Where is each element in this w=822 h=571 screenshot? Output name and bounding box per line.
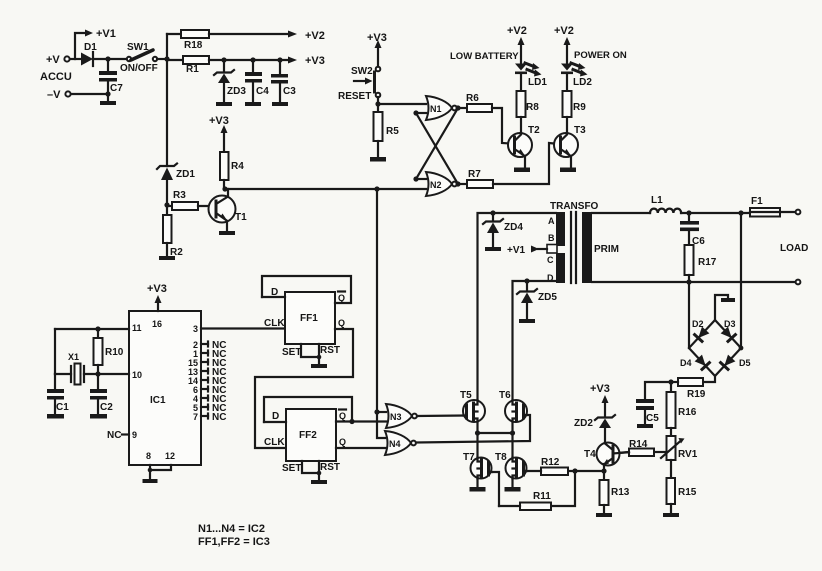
supply +V1 into tap bbox=[507, 245, 547, 256]
ground under R13 bbox=[596, 513, 612, 517]
svg-text:F1: F1 bbox=[751, 196, 763, 207]
transformer tap notch B/C bbox=[547, 245, 557, 254]
ground under T3 bbox=[560, 168, 576, 173]
ground under T1 bbox=[219, 231, 235, 235]
svg-text:Q: Q bbox=[338, 293, 345, 303]
resistor R17 bbox=[685, 245, 717, 282]
ground under T7 bbox=[470, 487, 486, 492]
transistor T2 bbox=[508, 125, 540, 167]
svg-text:N4: N4 bbox=[389, 439, 401, 449]
capacitor C5 bbox=[636, 382, 671, 424]
resistor R14 bbox=[620, 439, 667, 456]
wire pin11 branch down bbox=[54, 329, 56, 374]
svg-text:9: 9 bbox=[132, 430, 137, 440]
svg-text:T3: T3 bbox=[574, 125, 586, 136]
switch SW2 RESET bbox=[338, 66, 380, 102]
svg-text:+V3: +V3 bbox=[147, 283, 167, 295]
node ZD4 bbox=[490, 210, 495, 215]
resistor R18 bbox=[167, 30, 209, 51]
svg-text:T7: T7 bbox=[463, 452, 475, 463]
ground under C7 bbox=[100, 94, 116, 105]
terminal load top bbox=[796, 210, 801, 215]
node R5 / N1 input bbox=[375, 101, 380, 106]
MOSFET T8 bbox=[495, 452, 527, 479]
fuse F1 bbox=[750, 196, 780, 217]
wire rail to T7 drain bbox=[476, 433, 478, 457]
supply +V3 above ZD2 bbox=[590, 383, 610, 417]
svg-text:R15: R15 bbox=[678, 487, 697, 498]
wire primary top rail bbox=[592, 212, 650, 214]
wire mid rail bbox=[478, 432, 513, 434]
svg-text:R1: R1 bbox=[186, 64, 199, 75]
MOSFET T6 bbox=[499, 390, 527, 422]
svg-text:SW1: SW1 bbox=[127, 42, 149, 53]
resistor R12 bbox=[526, 457, 568, 475]
pin 11 wire bbox=[55, 328, 129, 330]
node N1 output bbox=[455, 105, 460, 110]
svg-text:R3: R3 bbox=[173, 190, 186, 201]
node FF2 Qbar loop bbox=[349, 419, 354, 424]
svg-text:10: 10 bbox=[132, 370, 142, 380]
wire vertical to N3/N4 bbox=[376, 189, 378, 412]
FF1 Qbar feedback loop bbox=[262, 276, 351, 303]
svg-text:+V2: +V2 bbox=[554, 25, 574, 37]
node R10 top bbox=[95, 326, 100, 331]
capacitor C1 bbox=[47, 374, 69, 414]
svg-text:LOAD: LOAD bbox=[780, 243, 808, 254]
diode D5 bbox=[721, 355, 751, 370]
svg-text:D5: D5 bbox=[739, 358, 751, 368]
LED LD2 bbox=[561, 63, 592, 91]
resistor R10 bbox=[94, 329, 124, 374]
svg-text:N2: N2 bbox=[430, 180, 442, 190]
ground under FF1 bbox=[311, 364, 327, 368]
svg-text:SET: SET bbox=[282, 347, 301, 358]
resistor R15 bbox=[667, 478, 697, 513]
wire T8 source to ground bbox=[511, 479, 513, 487]
pin 3 clock wire to FF1 bbox=[201, 327, 285, 329]
node rail left bbox=[475, 430, 480, 435]
ground under R5 bbox=[370, 157, 386, 162]
svg-text:+V2: +V2 bbox=[507, 25, 527, 37]
svg-text:R18: R18 bbox=[184, 40, 203, 51]
zener ZD4 bbox=[483, 213, 523, 247]
svg-text:R14: R14 bbox=[629, 439, 648, 450]
svg-text:–V: –V bbox=[47, 89, 61, 101]
transformer primary winding bbox=[582, 212, 592, 283]
svg-text:T1: T1 bbox=[235, 212, 247, 223]
flip-flop FF1 box bbox=[285, 292, 335, 344]
rectifier bridge arms bbox=[689, 320, 741, 376]
zener ZD2 bbox=[574, 415, 615, 443]
svg-text:+V3: +V3 bbox=[367, 32, 387, 44]
node C7 junction bbox=[105, 56, 110, 61]
svg-text:R7: R7 bbox=[468, 169, 481, 180]
svg-text:7: 7 bbox=[193, 412, 198, 422]
node R3/R2 bbox=[164, 202, 169, 207]
transistor T3 bbox=[554, 125, 586, 167]
node R17 bottom / bridge left bbox=[686, 279, 691, 284]
ground under C5 bbox=[637, 424, 653, 428]
capacitor C7 bbox=[99, 59, 123, 94]
pin 5 NC bbox=[193, 403, 226, 414]
node R4 / T1 collector bbox=[222, 186, 227, 191]
svg-text:LD2: LD2 bbox=[573, 77, 592, 88]
transformer core bbox=[571, 212, 576, 283]
wire bridge right feed bbox=[740, 213, 742, 348]
MOSFET T5 bbox=[460, 390, 485, 422]
svg-text:R8: R8 bbox=[526, 102, 539, 113]
pin 15 NC bbox=[188, 358, 226, 369]
svg-text:C1: C1 bbox=[56, 402, 69, 413]
wire T7 source to ground bbox=[476, 479, 478, 487]
node N3 upper input bbox=[374, 409, 379, 414]
svg-text:IC1: IC1 bbox=[150, 395, 166, 406]
ground under ZD4 bbox=[485, 247, 501, 251]
pin 1 NC bbox=[193, 349, 226, 360]
svg-text:PRIM: PRIM bbox=[594, 244, 619, 255]
svg-text:D2: D2 bbox=[692, 319, 704, 329]
resistor R11 bbox=[499, 491, 551, 510]
capacitor C6 bbox=[680, 213, 705, 247]
crystal X1 bbox=[55, 352, 129, 385]
svg-text:+V3: +V3 bbox=[305, 55, 325, 67]
wire node down to N4 input bbox=[377, 412, 385, 438]
node bridge right feed bbox=[738, 210, 743, 215]
FF2 Qbar feedback loop bbox=[264, 397, 352, 422]
ground under ZD3 bbox=[216, 102, 232, 106]
svg-text:+V2: +V2 bbox=[305, 30, 325, 42]
svg-text:ZD3: ZD3 bbox=[227, 86, 246, 97]
resistor R4 bbox=[220, 152, 244, 189]
FF2 SET/RST stubs bbox=[282, 461, 340, 480]
supply +V2 above LD1 bbox=[507, 25, 527, 64]
FF2 Q output to N4 bbox=[336, 437, 386, 448]
wire RV1 to R15 bbox=[670, 460, 672, 478]
svg-text:ZD4: ZD4 bbox=[504, 222, 523, 233]
svg-text:+V1: +V1 bbox=[96, 28, 116, 40]
svg-text:Q: Q bbox=[339, 437, 346, 447]
ground under T8 bbox=[505, 487, 521, 492]
svg-text:A: A bbox=[548, 216, 555, 226]
IC U1 box IC1 bbox=[129, 311, 201, 465]
supply +V2 above LD2 bbox=[554, 25, 574, 64]
transistor T4 bbox=[584, 443, 629, 472]
transformer secondary winding lower C-D bbox=[556, 253, 565, 283]
wire rail to T8 drain bbox=[511, 433, 513, 457]
svg-text:T6: T6 bbox=[499, 390, 511, 401]
gate N2 bbox=[426, 172, 457, 196]
pin 2 NC bbox=[193, 340, 226, 351]
svg-text:+V: +V bbox=[46, 54, 60, 66]
node C3 bbox=[277, 57, 282, 62]
svg-text:RV1: RV1 bbox=[678, 449, 698, 460]
node rail right bbox=[510, 430, 515, 435]
svg-text:Q: Q bbox=[339, 411, 346, 421]
terminal +V bbox=[46, 54, 70, 66]
svg-text:R4: R4 bbox=[231, 161, 244, 172]
terminal load bottom bbox=[796, 280, 801, 285]
svg-text:R17: R17 bbox=[698, 257, 717, 268]
supply +V3 above IC1 bbox=[147, 283, 167, 311]
svg-text:NC: NC bbox=[212, 412, 226, 423]
svg-text:11: 11 bbox=[132, 323, 142, 333]
pin 9 NC stub bbox=[107, 430, 137, 441]
svg-text:Q: Q bbox=[338, 318, 345, 328]
capacitor C4 bbox=[245, 60, 269, 102]
switch SW1 ON/OFF bbox=[108, 42, 167, 74]
node C6 bbox=[686, 210, 691, 215]
svg-text:C2: C2 bbox=[100, 402, 113, 413]
capacitor C2 bbox=[90, 374, 113, 414]
pin 13 NC bbox=[188, 367, 226, 378]
diode D2 bbox=[692, 319, 709, 341]
wire F1 to load terminal bbox=[780, 211, 795, 213]
FF2 D input stub bbox=[264, 411, 286, 422]
svg-text:C4: C4 bbox=[256, 86, 269, 97]
svg-text:D3: D3 bbox=[724, 319, 736, 329]
zener ZD3 bbox=[214, 60, 246, 102]
pin 8/12 ground wires bbox=[148, 465, 171, 479]
svg-text:SET: SET bbox=[282, 463, 301, 474]
svg-text:D: D bbox=[272, 411, 279, 422]
resistor R1 bbox=[167, 56, 209, 75]
potentiometer RV1 bbox=[661, 436, 698, 460]
svg-text:NC: NC bbox=[107, 430, 121, 441]
svg-text:12: 12 bbox=[165, 451, 175, 461]
wire to +V2 arrow bbox=[209, 30, 325, 42]
wire R7 to T3 base bbox=[493, 143, 554, 184]
ground under FF2 bbox=[311, 480, 327, 484]
svg-text:CLK: CLK bbox=[264, 437, 285, 448]
wire cross N2 out to N1 in bbox=[416, 113, 458, 184]
svg-text:T4: T4 bbox=[584, 449, 596, 460]
resistor R13 bbox=[600, 471, 630, 513]
gate N4 bbox=[385, 431, 416, 455]
svg-text:RST: RST bbox=[320, 462, 340, 473]
inductor L1 bbox=[650, 195, 681, 213]
wire to +V3 arrow bbox=[209, 55, 325, 67]
svg-text:R9: R9 bbox=[573, 102, 586, 113]
svg-text:T2: T2 bbox=[528, 125, 540, 136]
transistor T1 bbox=[209, 189, 248, 231]
svg-text:FF1,FF2 = IC3: FF1,FF2 = IC3 bbox=[198, 536, 270, 548]
gate N3 bbox=[386, 404, 417, 428]
FF1 Q output to FF2 CLK bbox=[255, 318, 353, 448]
svg-text:N3: N3 bbox=[390, 412, 402, 422]
svg-text:8: 8 bbox=[146, 451, 151, 461]
wire tap D to T6 drain bbox=[513, 281, 557, 400]
svg-text:N1...N4 = IC2: N1...N4 = IC2 bbox=[198, 523, 265, 535]
ground under R2 bbox=[159, 256, 175, 260]
svg-text:R10: R10 bbox=[105, 347, 124, 358]
wire node to N1 bbox=[378, 103, 426, 105]
ground under C2 bbox=[90, 414, 107, 419]
svg-text:SW2: SW2 bbox=[351, 66, 373, 77]
wire R11 to T7 gate bbox=[490, 472, 499, 506]
svg-text:ZD2: ZD2 bbox=[574, 418, 593, 429]
node rail / SW1 bbox=[164, 56, 169, 61]
svg-text:B: B bbox=[548, 233, 555, 243]
svg-text:16: 16 bbox=[152, 319, 162, 329]
resistor R6 bbox=[458, 93, 492, 112]
wire main rail bbox=[166, 34, 168, 166]
svg-text:ON/OFF: ON/OFF bbox=[120, 63, 158, 74]
wire node to R11 bbox=[551, 471, 575, 506]
zener ZD5 bbox=[517, 281, 557, 319]
svg-text:T5: T5 bbox=[460, 390, 472, 401]
node N1 lower input stub bbox=[413, 110, 426, 115]
flip-flop FF2 box bbox=[286, 409, 336, 461]
node N2 upper input stub bbox=[413, 176, 426, 181]
supply +V3 above SW2 bbox=[367, 32, 387, 66]
svg-text:D: D bbox=[271, 287, 278, 298]
svg-text:ZD1: ZD1 bbox=[176, 169, 195, 180]
svg-text:CLK: CLK bbox=[264, 318, 285, 329]
node ZD3 bbox=[221, 57, 226, 62]
svg-text:N1: N1 bbox=[430, 104, 442, 114]
resistor R19 bbox=[671, 378, 706, 400]
wire R6 to T2 base bbox=[492, 108, 510, 144]
svg-text:R16: R16 bbox=[678, 407, 697, 418]
diode D3 bbox=[721, 319, 736, 341]
wire bottom rail bbox=[592, 281, 795, 283]
pin 14 NC bbox=[188, 376, 226, 387]
wire node to N3 input bbox=[377, 411, 386, 413]
svg-text:FF1: FF1 bbox=[300, 313, 318, 324]
FF1 SET/RST stubs bbox=[282, 344, 340, 364]
FF2 Qbar output to N3 bbox=[336, 410, 386, 422]
LED LD1 bbox=[515, 63, 547, 91]
svg-text:TRANSFO: TRANSFO bbox=[550, 201, 599, 212]
svg-text:RESET: RESET bbox=[338, 91, 371, 102]
resistor R2 bbox=[163, 205, 183, 258]
node +V1 tap bbox=[75, 28, 116, 59]
svg-text:T8: T8 bbox=[495, 452, 507, 463]
ground under C1 bbox=[47, 414, 64, 419]
wire T5 source to rail bbox=[476, 422, 478, 433]
wire N4 output to T6 gate line bbox=[416, 415, 530, 443]
resistor R3 bbox=[167, 190, 216, 210]
svg-text:C: C bbox=[547, 255, 554, 265]
ground hook at bridge top bbox=[715, 295, 735, 320]
capacitor C3 bbox=[271, 60, 296, 102]
ground under C4 bbox=[245, 102, 261, 106]
svg-text:+V1: +V1 bbox=[507, 245, 526, 256]
ground under T2 bbox=[514, 168, 530, 173]
node R10 bottom / C2 bbox=[95, 371, 100, 376]
wire bridge bottom to R19 bbox=[703, 376, 715, 382]
zener ZD1 bbox=[157, 164, 195, 181]
resistor R16 bbox=[667, 382, 697, 436]
resistor R8 bbox=[517, 91, 540, 133]
wire cross N1 out to N2 in bbox=[416, 108, 458, 179]
svg-text:R5: R5 bbox=[386, 126, 399, 137]
node N2 output bbox=[455, 181, 460, 186]
diode D4 bbox=[680, 355, 709, 370]
svg-text:D4: D4 bbox=[680, 358, 692, 368]
node bridge right vertex bbox=[739, 346, 744, 351]
wire +V to D1 bbox=[70, 58, 81, 60]
FF1 D input stub bbox=[262, 287, 285, 298]
svg-text:C7: C7 bbox=[110, 83, 123, 94]
wire N3 output to T5 gate bbox=[417, 414, 464, 417]
ground under C3 bbox=[272, 102, 288, 106]
ground under ZD5 bbox=[519, 319, 535, 323]
pin 6 NC bbox=[193, 385, 226, 396]
ground under IC1 bbox=[143, 479, 158, 483]
svg-text:FF2: FF2 bbox=[299, 430, 317, 441]
node R11 feed bbox=[572, 468, 577, 473]
wire L1 to F1 bbox=[681, 212, 750, 214]
wire T1/R4 node to N2 input bbox=[225, 188, 426, 190]
resistor R7 bbox=[458, 169, 493, 188]
svg-text:R13: R13 bbox=[611, 487, 630, 498]
svg-text:R11: R11 bbox=[533, 491, 551, 502]
svg-text:ACCU: ACCU bbox=[40, 71, 72, 83]
svg-text:D1: D1 bbox=[84, 42, 97, 53]
diode D1 bbox=[81, 42, 108, 66]
resistor R9 bbox=[563, 91, 587, 133]
svg-text:+V3: +V3 bbox=[590, 383, 610, 395]
transformer secondary winding upper A-B bbox=[556, 212, 565, 246]
svg-text:RST: RST bbox=[320, 345, 340, 356]
terminal -V bbox=[47, 89, 108, 101]
wire T6 source to rail bbox=[511, 422, 513, 433]
svg-text:C5: C5 bbox=[646, 413, 659, 424]
wire tap A to T5 drain bbox=[478, 213, 557, 401]
node R19 / R16 / C5 bbox=[668, 379, 673, 384]
svg-text:LD1: LD1 bbox=[528, 77, 547, 88]
pin 4 NC bbox=[193, 394, 226, 405]
svg-text:LOW BATTERY: LOW BATTERY bbox=[450, 51, 519, 62]
node T4 emitter / R13 bbox=[601, 468, 606, 473]
ground under R15 bbox=[663, 513, 679, 517]
node -V / C7 bbox=[105, 91, 110, 96]
node C4 bbox=[250, 57, 255, 62]
pin 7 NC bbox=[193, 412, 226, 423]
wire T4 node to R12 bbox=[568, 470, 604, 472]
svg-text:POWER ON: POWER ON bbox=[574, 50, 627, 61]
svg-text:3: 3 bbox=[193, 324, 198, 334]
node vertical feed bbox=[374, 186, 379, 191]
svg-text:R19: R19 bbox=[687, 389, 706, 400]
MOSFET T7 bbox=[463, 452, 492, 479]
wire ZD1 to node bbox=[166, 180, 168, 205]
svg-text:+V3: +V3 bbox=[209, 115, 229, 127]
node ZD5 bbox=[524, 278, 529, 283]
resistor R5 bbox=[374, 104, 400, 157]
svg-text:ZD5: ZD5 bbox=[538, 292, 557, 303]
svg-text:R6: R6 bbox=[466, 93, 479, 104]
svg-text:R12: R12 bbox=[541, 457, 560, 468]
gate N1 bbox=[426, 96, 457, 120]
wire bridge left feed bbox=[688, 282, 690, 348]
svg-text:L1: L1 bbox=[651, 195, 663, 206]
svg-text:C3: C3 bbox=[283, 86, 296, 97]
supply +V3 above R4 bbox=[209, 115, 229, 152]
svg-text:X1: X1 bbox=[68, 352, 79, 362]
wire SW2 to node bbox=[377, 97, 379, 104]
